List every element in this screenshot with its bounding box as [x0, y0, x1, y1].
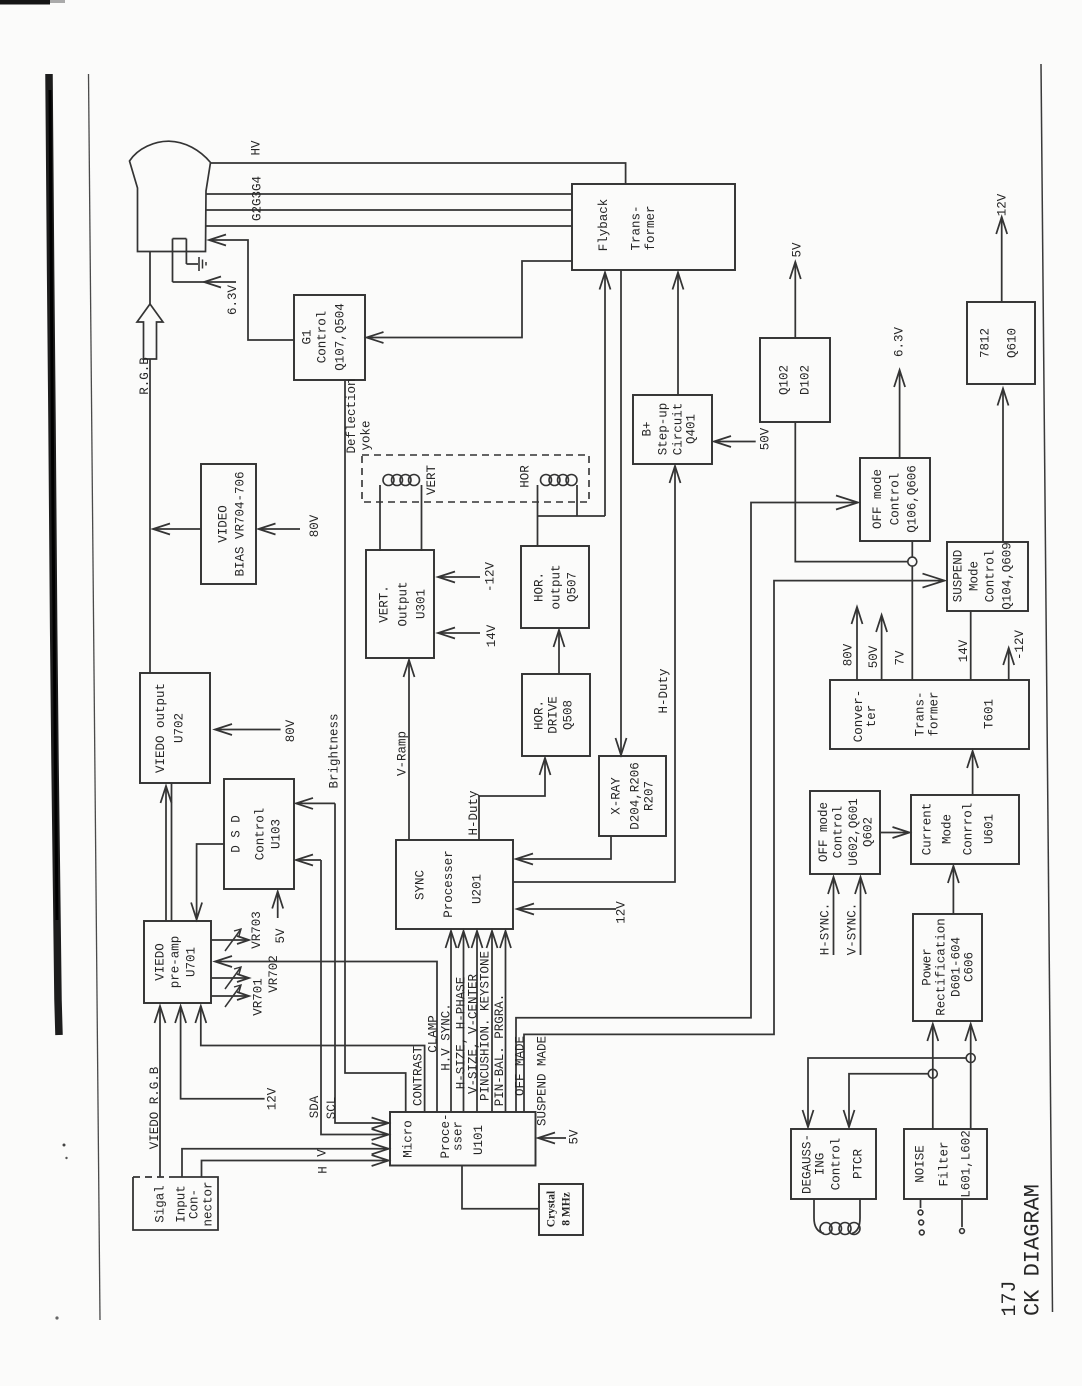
svg-text:G1: G1 [301, 329, 315, 344]
svg-text:7812: 7812 [979, 328, 993, 358]
svg-text:OFF mode: OFF mode [871, 469, 885, 529]
svg-text:H-SYNC.: H-SYNC. [819, 903, 833, 956]
svg-text:Trans-: Trans- [913, 691, 927, 736]
svg-text:D102: D102 [799, 365, 813, 395]
svg-text:D204,R206: D204,R206 [629, 762, 643, 830]
svg-text:14V: 14V [485, 624, 499, 647]
svg-text:Input: Input [175, 1185, 189, 1223]
svg-text:former: former [644, 205, 658, 250]
svg-text:OFF mode: OFF mode [817, 802, 831, 862]
svg-text:Q508: Q508 [562, 700, 576, 730]
svg-text:6.3V: 6.3V [893, 327, 907, 358]
svg-text:Control: Control [889, 473, 903, 526]
svg-text:PIN-BAL. PRGRA.: PIN-BAL. PRGRA. [493, 994, 507, 1107]
svg-text:VIDEO: VIDEO [217, 505, 231, 543]
svg-text:Q106,Q606: Q106,Q606 [906, 465, 920, 533]
svg-text:yoke: yoke [360, 420, 374, 450]
svg-text:Q610: Q610 [1006, 328, 1020, 358]
svg-text:Filter: Filter [938, 1141, 952, 1186]
svg-text:Q507: Q507 [566, 572, 580, 602]
svg-text:Mode: Mode [941, 814, 955, 844]
svg-text:B+: B+ [641, 421, 655, 436]
svg-text:12V: 12V [996, 193, 1010, 216]
svg-text:U601: U601 [983, 814, 997, 844]
svg-text:5V: 5V [274, 928, 288, 944]
svg-text:VIEDO output: VIEDO output [154, 683, 168, 773]
svg-text:DEGAUSS-: DEGAUSS- [801, 1134, 815, 1194]
svg-text:CLAMP: CLAMP [427, 1015, 441, 1053]
svg-text:HV: HV [250, 140, 264, 156]
svg-text:Rectification: Rectification [935, 918, 949, 1016]
svg-text:CK DIAGRAM: CK DIAGRAM [1021, 1184, 1046, 1316]
svg-text:Conrrol: Conrrol [962, 803, 976, 856]
svg-text:-12V: -12V [484, 562, 498, 593]
svg-text:L601,L602: L601,L602 [960, 1130, 974, 1198]
svg-text:SUSPEND MADE: SUSPEND MADE [536, 1036, 550, 1126]
svg-text:NOISE: NOISE [914, 1145, 928, 1183]
svg-text:sser: sser [452, 1121, 466, 1151]
svg-text:12V: 12V [615, 901, 629, 924]
svg-text:U602,Q601: U602,Q601 [847, 798, 861, 866]
svg-text:HOR: HOR [519, 465, 533, 488]
svg-text:80V: 80V [284, 719, 298, 742]
svg-text:14V: 14V [957, 639, 971, 662]
svg-text:PTCR: PTCR [852, 1149, 866, 1180]
svg-text:Con-: Con- [188, 1189, 202, 1219]
svg-text:5V: 5V [791, 242, 805, 258]
svg-text:U101: U101 [472, 1125, 486, 1155]
svg-text:H.V SYNC.: H.V SYNC. [440, 1003, 454, 1071]
svg-text:VIEDO R.G.B: VIEDO R.G.B [148, 1066, 162, 1149]
svg-text:G2G3G4: G2G3G4 [251, 176, 265, 221]
svg-text:VR701: VR701 [252, 978, 266, 1016]
svg-text:Flyback: Flyback [597, 199, 611, 252]
svg-text:Control: Control [254, 808, 268, 861]
svg-text:U301: U301 [415, 589, 429, 619]
svg-text:Conver-: Conver- [852, 690, 866, 743]
svg-text:SCL: SCL [325, 1097, 339, 1120]
svg-text:ter: ter [865, 705, 879, 728]
svg-text:D S D: D S D [230, 815, 244, 853]
svg-text:PINCUSHION. KEYSTONE: PINCUSHION. KEYSTONE [478, 951, 492, 1101]
svg-text:80V: 80V [308, 514, 322, 537]
svg-text:17J: 17J [999, 1280, 1022, 1316]
svg-text:7V: 7V [894, 650, 908, 666]
svg-text:12V: 12V [266, 1087, 280, 1110]
svg-text:SUSPEND: SUSPEND [952, 550, 966, 603]
svg-text:D601-604: D601-604 [950, 937, 964, 997]
svg-text:Circuit: Circuit [672, 403, 686, 456]
svg-text:Control: Control [316, 311, 330, 364]
svg-text:pre-amp: pre-amp [169, 936, 183, 989]
svg-text:6.3V: 6.3V [226, 285, 240, 316]
svg-text:Power: Power [921, 948, 935, 986]
svg-text:output: output [550, 564, 564, 609]
svg-text:Mode: Mode [968, 561, 982, 591]
svg-text:H: H [317, 1166, 331, 1174]
svg-text:Q104,Q609: Q104,Q609 [1001, 542, 1015, 610]
svg-text:R.G.B: R.G.B [138, 357, 152, 395]
svg-text:Q107,Q504: Q107,Q504 [334, 303, 348, 371]
svg-text:Output: Output [397, 581, 411, 626]
svg-text:50V: 50V [867, 645, 881, 668]
svg-text:V: V [316, 1149, 330, 1157]
svg-text:U701: U701 [184, 947, 198, 977]
svg-text:Q602: Q602 [862, 817, 876, 847]
svg-text:VERT: VERT [425, 465, 439, 496]
svg-text:former: former [928, 691, 942, 736]
svg-text:5V: 5V [568, 1129, 582, 1145]
svg-text:VR703: VR703 [250, 911, 264, 949]
svg-text:CONTRAST: CONTRAST [412, 1045, 426, 1106]
svg-text:SYNC: SYNC [414, 870, 428, 900]
svg-text:ING: ING [814, 1153, 828, 1176]
svg-text:T601: T601 [982, 699, 996, 729]
svg-text:Crystal: Crystal [546, 1191, 558, 1227]
svg-text:Sigal: Sigal [154, 1185, 168, 1223]
svg-text:Step-up: Step-up [657, 403, 671, 456]
svg-text:BIAS VR704-706: BIAS VR704-706 [234, 471, 248, 576]
svg-text:U702: U702 [173, 713, 187, 743]
svg-text:HOR.: HOR. [533, 700, 547, 730]
svg-text:Control: Control [984, 550, 998, 603]
svg-text:VIEDO: VIEDO [154, 943, 168, 981]
svg-text:8 MHz: 8 MHz [561, 1192, 573, 1226]
svg-text:50V: 50V [759, 427, 773, 450]
svg-text:Control: Control [830, 1138, 844, 1191]
svg-text:V-SYNC.: V-SYNC. [846, 903, 860, 956]
svg-text:R207: R207 [643, 781, 657, 811]
svg-text:nector: nector [202, 1181, 216, 1226]
svg-text:V-Ramp: V-Ramp [396, 731, 410, 776]
svg-text:VERT.: VERT. [378, 585, 392, 623]
svg-text:-12V: -12V [1013, 630, 1027, 661]
svg-text:DRIVE: DRIVE [547, 696, 561, 734]
svg-text:Current: Current [921, 803, 935, 856]
svg-text:X-RAY: X-RAY [610, 777, 624, 815]
svg-text:Deflection: Deflection [345, 378, 359, 453]
svg-text:Control: Control [832, 806, 846, 859]
svg-text:H-Duty: H-Duty [467, 790, 481, 836]
svg-text:OFF MADE: OFF MADE [514, 1036, 528, 1096]
svg-text:Micro: Micro [401, 1120, 415, 1158]
svg-text:SDA: SDA [308, 1095, 322, 1118]
svg-text:80V: 80V [842, 643, 856, 666]
svg-text:U103: U103 [270, 819, 284, 849]
svg-text:Q401: Q401 [685, 414, 699, 444]
svg-text:U201: U201 [471, 874, 485, 904]
svg-text:Processer: Processer [442, 850, 456, 918]
svg-text:Trans-: Trans- [629, 205, 643, 250]
svg-text:C606: C606 [963, 952, 977, 982]
svg-text:H-Duty: H-Duty [657, 668, 671, 714]
svg-text:Q102: Q102 [778, 365, 792, 395]
svg-text:HOR.: HOR. [533, 572, 547, 602]
svg-text:Brightness: Brightness [328, 713, 342, 788]
